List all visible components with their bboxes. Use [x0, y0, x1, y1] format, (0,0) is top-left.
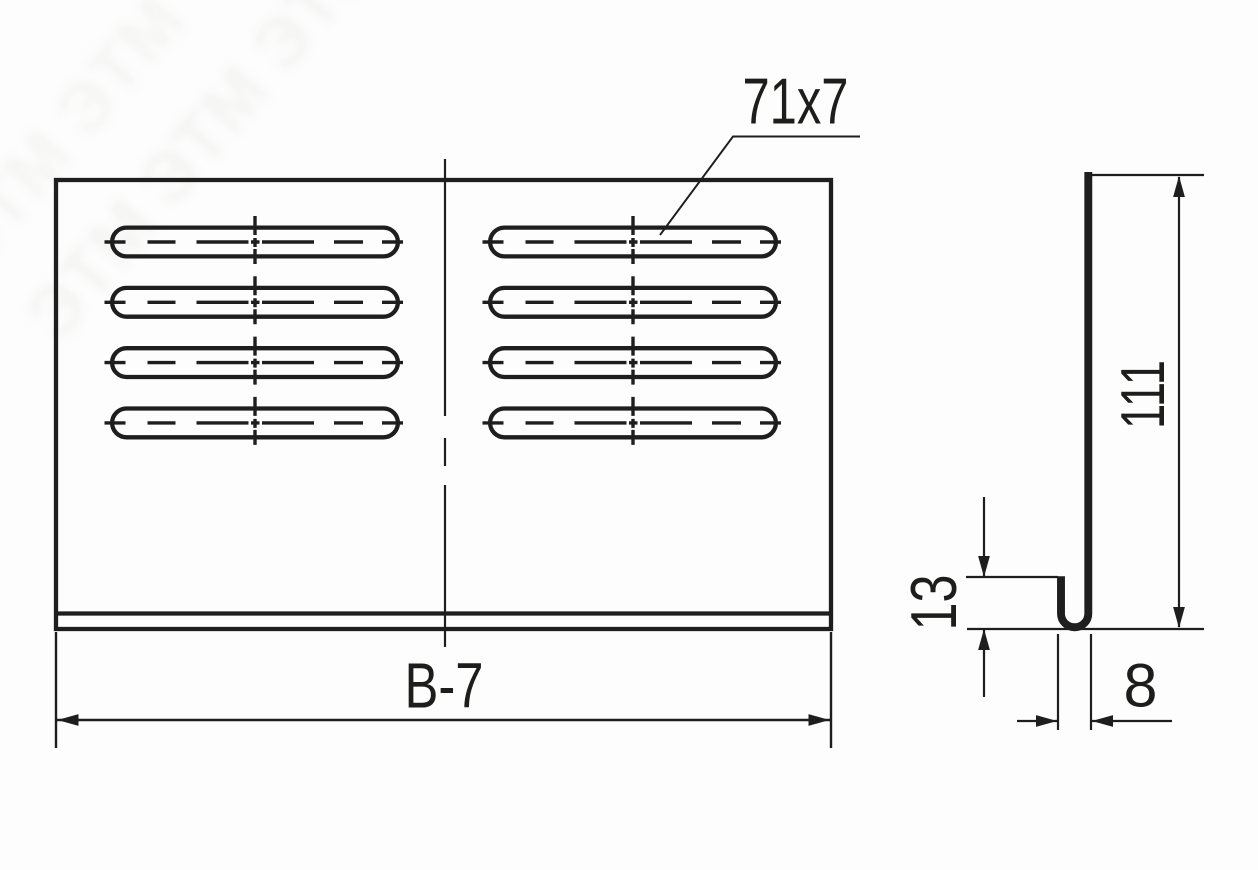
plate outline [56, 180, 831, 629]
dim 13 arrow upper [978, 556, 990, 577]
dim 13 line upper [983, 497, 985, 576]
dim 8 extension left [1057, 634, 1059, 730]
slot vertical mark row4 left [253, 397, 256, 445]
watermark [0, 0, 397, 490]
slot centerline row4 left [105, 421, 404, 424]
slot vertical mark row2 left [253, 276, 256, 324]
slot vertical mark row3 right [631, 337, 634, 385]
dim 13 line lower [983, 630, 985, 697]
slot row4 left [112, 409, 398, 438]
svg-text:13: 13 [897, 575, 970, 631]
slot row2 right [490, 288, 776, 317]
dimension B-7 extension line right [830, 632, 832, 748]
dimension B-7 arrow right [809, 714, 830, 726]
dim 111 / 13 shared extension bottom [967, 628, 1204, 630]
slot row1 right [490, 228, 776, 257]
dim 8 extension right [1090, 634, 1092, 730]
plate bottom fold line [56, 611, 831, 615]
dim 111 arrow top [1173, 176, 1185, 197]
dimension B-7 arrow left [58, 714, 79, 726]
svg-text:71x7: 71x7 [743, 65, 849, 138]
dimension B-7 extension line left [55, 632, 57, 748]
slot vertical mark row4 right [631, 397, 634, 445]
slot vertical mark row1 left [253, 216, 256, 264]
dim 13 extension top [966, 576, 1058, 578]
slot centerline row2 left [105, 301, 404, 304]
dim 8 line left [1017, 720, 1057, 722]
slot centerline row3 left [105, 361, 404, 364]
dim 8 line right [1092, 720, 1172, 722]
dimension B-7 line [57, 719, 830, 721]
svg-text:111: 111 [1109, 360, 1178, 429]
slot centerline row1 right [483, 240, 782, 243]
main vertical centerline [444, 159, 446, 647]
dim 111 arrow bottom [1173, 607, 1185, 628]
slot vertical mark row3 left [253, 337, 256, 385]
dim 111 extension top [1086, 174, 1204, 176]
slot centerline row2 right [483, 301, 782, 304]
slot centerline row4 right [483, 421, 782, 424]
slot row3 left [112, 348, 398, 377]
leader line 71x7 [660, 137, 860, 236]
dim 8 arrow right [1092, 715, 1113, 727]
slot vertical mark row1 right [631, 216, 634, 264]
slot row2 left [112, 288, 398, 317]
dim 13 arrow lower [978, 629, 990, 650]
slot centerline row3 right [483, 361, 782, 364]
side view cover profile J-section [1061, 172, 1088, 627]
svg-text:8: 8 [1124, 652, 1158, 720]
slot row4 right [490, 409, 776, 438]
slot vertical mark row2 right [631, 276, 634, 324]
slot centerline row1 left [105, 240, 404, 243]
slot row1 left [112, 228, 398, 257]
dim 111 line [1178, 177, 1180, 627]
slot row3 right [490, 348, 776, 377]
dim 8 arrow left [1036, 715, 1057, 727]
svg-text:В-7: В-7 [405, 650, 484, 722]
